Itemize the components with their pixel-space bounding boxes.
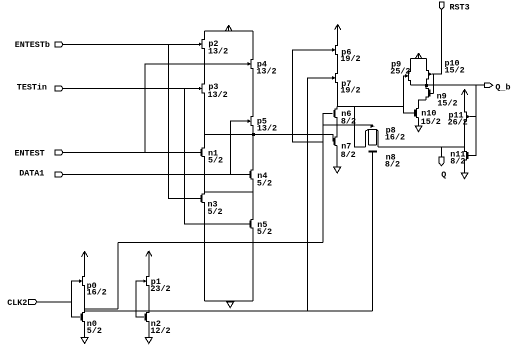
- svg-text:5/2: 5/2: [87, 326, 102, 336]
- svg-text:16/2: 16/2: [385, 133, 405, 143]
- wire clk2b vertical x=323.1 and n6 gate stub: [323, 114, 333, 243]
- svg-text:ENTESTb: ENTESTb: [15, 40, 50, 50]
- transistor n8 8/2 (gate bar and stem): [368, 151, 400, 311]
- wire p9 drain rail to output dot: [411, 84, 427, 86]
- wire net ENTESTb to p2 gate: [63, 43, 199, 45]
- ground symbol (n11 source): [461, 160, 468, 179]
- svg-text:15/2: 15/2: [445, 66, 465, 76]
- svg-text:15/2: 15/2: [437, 98, 457, 108]
- wire VDD rail p9/p10: [411, 58, 427, 60]
- transistor p2 13/2: [199, 39, 228, 56]
- wire n10 leads: [416, 109, 418, 118]
- transistor p4 13/2: [248, 59, 277, 76]
- wire n9 leads: [426, 86, 428, 100]
- transistor p7 19/2: [332, 76, 360, 95]
- wire ENTESTb down to n3 gate: [168, 44, 200, 198]
- svg-text:DATA1: DATA1: [19, 169, 44, 179]
- wire p8 gate from clk2b with arrow: [323, 124, 373, 126]
- wire net RST3 down to p10 gate: [432, 9, 442, 74]
- svg-text:12/2: 12/2: [150, 326, 170, 336]
- ground symbol (n0 source): [81, 321, 88, 343]
- wire net Q_b output: [426, 84, 484, 86]
- wire p6 gate to clk2b: [293, 50, 333, 142]
- transistor n3 5/2: [201, 195, 223, 217]
- wire inverter-2 leads p1/n2: [147, 257, 149, 338]
- port TESTin: [17, 83, 63, 93]
- transistor n2 12/2: [145, 313, 171, 336]
- power VDD arrow (p0): [82, 251, 88, 276]
- wire p9 leads: [409, 59, 411, 85]
- transistor p8/n8 t-gate body: [366, 129, 378, 147]
- wire net DATA1 to n4 gate: [63, 174, 250, 176]
- power VDD arrow (p1): [146, 251, 152, 277]
- svg-text:Q_b: Q_b: [495, 82, 510, 92]
- port Q_b: [485, 82, 511, 92]
- transistor p0 16/2: [79, 279, 107, 297]
- ground symbol (left block rail): [227, 302, 234, 308]
- wire node X drop to keeper t-gate: [355, 106, 366, 146]
- svg-text:19/2: 19/2: [340, 85, 360, 95]
- transistor p1 23/2: [143, 277, 170, 294]
- power VDD arrow (p11): [462, 89, 468, 112]
- wire clk2b riser x=117.9: [117, 242, 119, 309]
- svg-text:19/2: 19/2: [340, 54, 360, 64]
- wire net CLK2 to inverter gates: [37, 301, 72, 303]
- wire n9 source to n10 drain: [419, 100, 427, 109]
- svg-text:ENTEST: ENTEST: [15, 149, 45, 159]
- port CLK2: [7, 298, 37, 308]
- transistor p11 26/2 (mirrored): [448, 111, 471, 128]
- wire DATA1 up to p5 gate: [230, 121, 247, 174]
- svg-text:16/2: 16/2: [87, 288, 107, 298]
- transistor n4 5/2: [249, 171, 272, 188]
- svg-text:5/2: 5/2: [257, 178, 272, 188]
- wire p6/p7 leads column: [336, 24, 338, 106]
- wire clk long line to n8 stem: [85, 310, 373, 312]
- port ENTEST: [15, 149, 63, 159]
- svg-text:5/2: 5/2: [208, 207, 223, 217]
- transistor n0 5/2: [80, 313, 101, 336]
- wire ENTEST to p4 gate (vertical x=145.2 and gate run): [145, 64, 248, 152]
- wire p11 gate stub: [470, 116, 476, 118]
- port RST3: [439, 2, 469, 12]
- junction node D (dot at p5/n4): [252, 133, 255, 136]
- wire inverter-2 gate bar: [136, 281, 144, 317]
- svg-text:13/2: 13/2: [208, 46, 228, 56]
- port ENTESTb: [15, 40, 63, 50]
- ground symbol (n2 source): [145, 321, 152, 343]
- svg-text:13/2: 13/2: [208, 90, 228, 100]
- wire n9 gate riser from RST3 wire: [432, 74, 434, 93]
- transistor p3 13/2: [199, 82, 228, 100]
- port DATA1: [19, 169, 63, 179]
- wire n6/n7 leads column with GND stem start: [335, 106, 337, 145]
- transistor n10 15/2: [414, 109, 441, 127]
- wire VDD rail left block: [204, 30, 253, 32]
- wire Q port stem: [440, 147, 442, 157]
- power VDD arrow (p9/p10 rail): [416, 53, 422, 59]
- svg-text:8/2: 8/2: [341, 150, 356, 160]
- svg-text:26/2: 26/2: [448, 117, 468, 127]
- svg-text:25/2: 25/2: [390, 66, 410, 76]
- wire clk buffered line (inv1 out tap): [85, 308, 118, 310]
- svg-text:5/2: 5/2: [208, 155, 223, 165]
- wire Q node: t-gate right to p11/n11 drains: [378, 146, 465, 148]
- svg-text:Q: Q: [441, 170, 446, 180]
- wire D node: mux output to n7 gate: [204, 134, 334, 141]
- wire inverter-1 leads p0/n0: [82, 257, 84, 338]
- wire left column leads p2/p3/n1/n3 stack: [202, 31, 204, 301]
- transistor n1 5/2: [201, 149, 224, 166]
- power VDD arrow (p6 column): [335, 24, 341, 45]
- transistor p6 19/2: [332, 47, 360, 64]
- ground symbol (n10 source): [415, 117, 422, 131]
- svg-text:8/2: 8/2: [450, 157, 465, 167]
- transistor p10 15/2 (mirrored): [429, 58, 465, 76]
- wire TESTin down to n5 gate: [184, 89, 249, 224]
- power VDD arrow (left block): [226, 25, 232, 31]
- transistor n7 8/2: [333, 138, 355, 160]
- svg-text:CLK2: CLK2: [7, 298, 27, 308]
- transistor p9 25/2: [390, 60, 410, 78]
- svg-text:8/2: 8/2: [385, 160, 400, 170]
- svg-text:15/2: 15/2: [421, 117, 441, 127]
- junction node Q_b (dot): [425, 84, 428, 87]
- wire node X: p7/n6 junction to p9 gate riser: [338, 105, 404, 107]
- transistor p8 16/2 (gate arrow): [370, 124, 405, 142]
- svg-text:13/2: 13/2: [257, 124, 277, 134]
- wire p10 leads: [427, 59, 429, 84]
- wire GND rail left block: [204, 300, 253, 302]
- transistor p5 13/2: [248, 116, 277, 133]
- wire net TESTin to p3 gate: [63, 88, 199, 90]
- wire n3 drain to n5 drain: [204, 191, 253, 193]
- wire inverter-1 gate bar (CLK2): [72, 281, 80, 317]
- transistor n11 8/2 (mirrored): [450, 149, 468, 166]
- wire p7 gate down to clk2d line: [308, 78, 333, 311]
- wire Q_b feedback vertical to p11/n11 gates: [468, 85, 475, 155]
- wire right column leads p4/p5/n4/n5 stack: [251, 31, 253, 301]
- svg-text:5/2: 5/2: [257, 227, 272, 237]
- transistor n9 15/2 (mirrored): [429, 90, 458, 109]
- wire p9 gate to node X riser: [403, 76, 414, 113]
- svg-text:RST3: RST3: [450, 2, 470, 12]
- ground symbol (n7 source): [334, 146, 341, 173]
- wire n11 leads: [465, 147, 467, 160]
- port Q: [439, 157, 446, 180]
- wire net ENTEST to n1 gate: [63, 151, 201, 153]
- transistor n6 8/2: [333, 109, 356, 127]
- svg-text:13/2: 13/2: [256, 67, 276, 77]
- svg-text:23/2: 23/2: [150, 284, 170, 294]
- svg-text:TESTin: TESTin: [17, 83, 47, 93]
- wire p11 leads: [465, 95, 467, 147]
- wire clk2b horizontal y=242.4: [118, 241, 323, 243]
- transistor n5 5/2: [249, 220, 272, 237]
